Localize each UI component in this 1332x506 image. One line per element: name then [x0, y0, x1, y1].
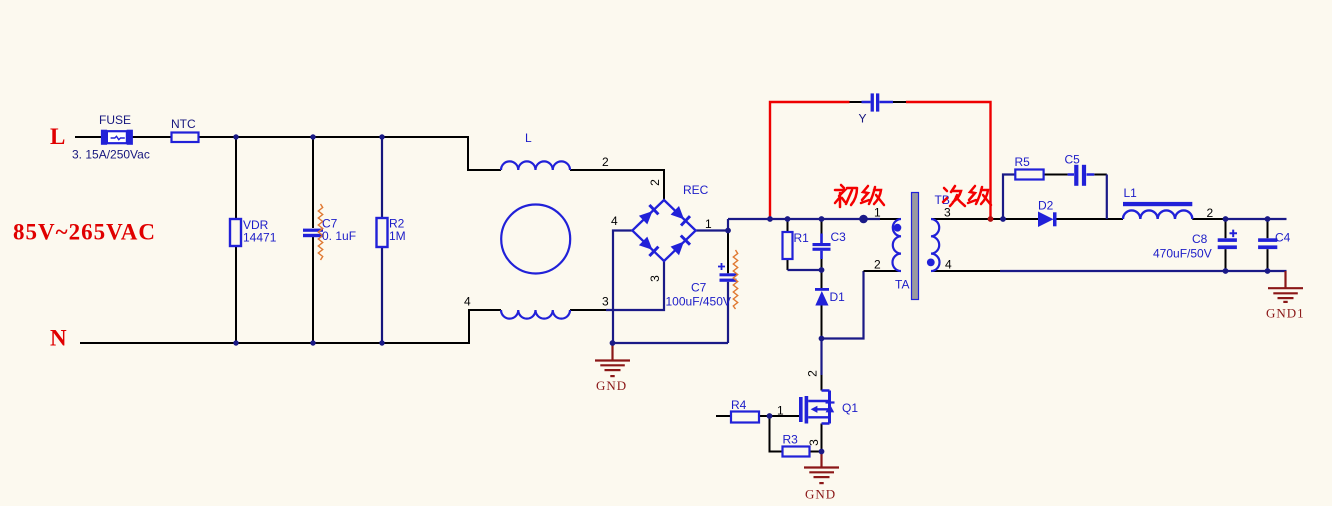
wire D1 drain chain — [821, 270, 823, 391]
wire L rail — [75, 137, 664, 200]
svg-text:0. 1uF: 0. 1uF — [322, 229, 356, 243]
capacitor C5 — [1068, 165, 1095, 186]
svg-text:C5: C5 — [1065, 153, 1081, 167]
svg-text:3: 3 — [602, 295, 609, 309]
svg-text:14471: 14471 — [243, 231, 277, 245]
svg-text:C3: C3 — [831, 230, 847, 244]
svg-text:1M: 1M — [389, 229, 406, 243]
svg-text:3: 3 — [807, 439, 821, 446]
wire gnd rail primary — [613, 282, 728, 343]
transformer TA core — [912, 193, 919, 300]
wire C7 branch — [312, 137, 314, 343]
ground GND source — [804, 452, 839, 484]
svg-text:N: N — [50, 326, 67, 351]
wire main bus — [728, 218, 880, 220]
inductor L core circle — [501, 205, 570, 274]
svg-text:3: 3 — [648, 275, 662, 282]
resistor R5 — [1015, 170, 1043, 180]
svg-text:4: 4 — [611, 214, 618, 228]
text primary chinese — [835, 185, 884, 207]
junction dot gnd rail — [610, 340, 616, 346]
svg-text:C7: C7 — [691, 281, 707, 295]
wire C3 branch — [821, 219, 823, 270]
wire pin2 link — [822, 271, 864, 375]
resistor R2 — [377, 218, 388, 247]
svg-text:2: 2 — [648, 179, 662, 186]
transistor Q1 MOSFET — [799, 391, 835, 424]
wire output top rail — [1226, 218, 1287, 220]
transformer TA primary phase dot — [894, 224, 902, 232]
wire output bottom rail — [1000, 270, 1287, 272]
ground GND bridge — [595, 343, 630, 376]
wire bus to pin1 — [880, 218, 901, 220]
annotation zigzag C7 bulk — [733, 250, 737, 309]
bridge rectifier REC diamond — [632, 200, 695, 261]
svg-text:2: 2 — [602, 155, 609, 169]
capacitor Y — [862, 93, 894, 111]
transformer TA secondary winding — [931, 219, 940, 271]
svg-text:Q1: Q1 — [842, 401, 858, 415]
wire R2 branch — [381, 137, 383, 343]
svg-text:4: 4 — [945, 258, 952, 272]
ground GND1 output — [1268, 271, 1303, 302]
wire red Y loop right — [906, 102, 991, 219]
svg-text:FUSE: FUSE — [99, 113, 131, 127]
capacitor C8 — [1218, 230, 1237, 249]
junction dots L rail — [233, 134, 384, 139]
wire C7 bulk stub — [727, 231, 729, 274]
svg-text:C4: C4 — [1275, 231, 1291, 245]
wire D2 to L1 — [1056, 218, 1123, 220]
wire snubber rejoin — [1106, 175, 1108, 220]
wire Y cap stubs — [850, 101, 907, 103]
svg-text:L: L — [50, 124, 65, 149]
diode D2 — [1038, 212, 1057, 228]
inductor L bottom winding — [501, 310, 570, 319]
wire bridge right — [696, 219, 728, 231]
junction dot D1 bottom — [819, 336, 825, 342]
wire bridge bottom — [606, 261, 664, 310]
capacitor C4 — [1258, 238, 1277, 249]
junction dot snubber — [1000, 216, 1006, 222]
junction dots output rails — [1223, 216, 1271, 274]
wire N rail — [80, 310, 606, 343]
bridge diode bottom-right — [671, 236, 690, 256]
inductor L1 winding — [1123, 210, 1192, 219]
wire pin2 black — [864, 270, 902, 272]
wire bridge left — [613, 231, 632, 344]
svg-text:TA: TA — [895, 278, 909, 292]
svg-text:L1: L1 — [1124, 186, 1138, 200]
diode D1 — [815, 288, 829, 306]
bridge diode top-right — [671, 206, 690, 226]
resistor R4 — [731, 412, 759, 423]
svg-text:100uF/450V: 100uF/450V — [666, 295, 731, 309]
wire red Y loop left — [770, 102, 850, 219]
svg-text:R4: R4 — [731, 398, 747, 412]
svg-text:3: 3 — [944, 206, 951, 220]
wire R5 C5 link — [1044, 174, 1107, 176]
svg-text:R1: R1 — [794, 231, 810, 245]
svg-text:1: 1 — [777, 404, 784, 418]
wire pin3 to D2 — [931, 218, 1038, 220]
capacitor C3 — [813, 234, 831, 260]
inductor L1 core bar — [1123, 202, 1192, 206]
svg-text:470uF/50V: 470uF/50V — [1153, 247, 1212, 261]
text secondary chinese — [943, 186, 991, 206]
svg-text:1: 1 — [705, 217, 712, 231]
wire C4 branch — [1267, 219, 1269, 271]
bridge diode bottom-left — [639, 237, 659, 256]
svg-text:3. 15A/250Vac: 3. 15A/250Vac — [72, 148, 150, 162]
transformer TA secondary phase dot — [927, 259, 935, 267]
svg-text:1: 1 — [874, 206, 881, 220]
fuse FUSE — [101, 130, 133, 145]
capacitor C7 0.1uF — [303, 229, 323, 238]
resistor R1 — [783, 232, 793, 259]
junction dot bridge out — [725, 228, 731, 234]
wire C8 branch — [1225, 219, 1227, 271]
junction dots main bus — [767, 215, 868, 224]
transformer TA primary winding — [893, 219, 902, 271]
svg-text:R3: R3 — [783, 433, 799, 447]
svg-text:R5: R5 — [1015, 155, 1031, 169]
bridge diode top-left — [639, 205, 659, 224]
varistor VDR — [230, 219, 241, 246]
wire R3 loop — [770, 416, 822, 452]
svg-text:D1: D1 — [830, 290, 846, 304]
junction dot gate node — [767, 413, 773, 419]
wire Q1 source — [821, 424, 823, 452]
annotation zigzag C7 — [318, 204, 322, 260]
resistor R3 — [783, 447, 810, 457]
wire pin4 black — [931, 270, 1000, 272]
svg-text:D2: D2 — [1038, 199, 1054, 213]
junction dots N rail — [233, 340, 384, 345]
svg-text:L: L — [525, 131, 532, 145]
svg-text:2: 2 — [874, 258, 881, 272]
wire R1 C3 bottom link — [788, 269, 822, 271]
svg-text:REC: REC — [683, 183, 709, 197]
wire snubber branch — [1003, 175, 1015, 220]
svg-text:85V~265VAC: 85V~265VAC — [13, 220, 156, 245]
wire VDR branch — [235, 137, 237, 343]
wire L1 out — [1192, 218, 1225, 220]
inductor L top winding — [501, 161, 570, 170]
svg-text:Y: Y — [859, 112, 867, 126]
svg-text:C8: C8 — [1192, 232, 1208, 246]
svg-text:GND1: GND1 — [1266, 306, 1305, 321]
junction dot secondary red — [988, 216, 994, 222]
wire R4 stub — [716, 415, 800, 417]
svg-text:2: 2 — [806, 370, 820, 377]
svg-text:GND: GND — [805, 487, 836, 502]
wire R1 branch — [787, 219, 789, 270]
svg-text:4: 4 — [464, 295, 471, 309]
capacitor C7 100uF/450V — [718, 263, 737, 282]
svg-text:2: 2 — [1207, 206, 1214, 220]
svg-text:GND: GND — [596, 378, 627, 393]
svg-text:NTC: NTC — [171, 117, 196, 131]
junction dot source node — [819, 449, 825, 455]
thermistor NTC — [172, 133, 199, 143]
junction dot C3 bottom — [819, 267, 825, 273]
